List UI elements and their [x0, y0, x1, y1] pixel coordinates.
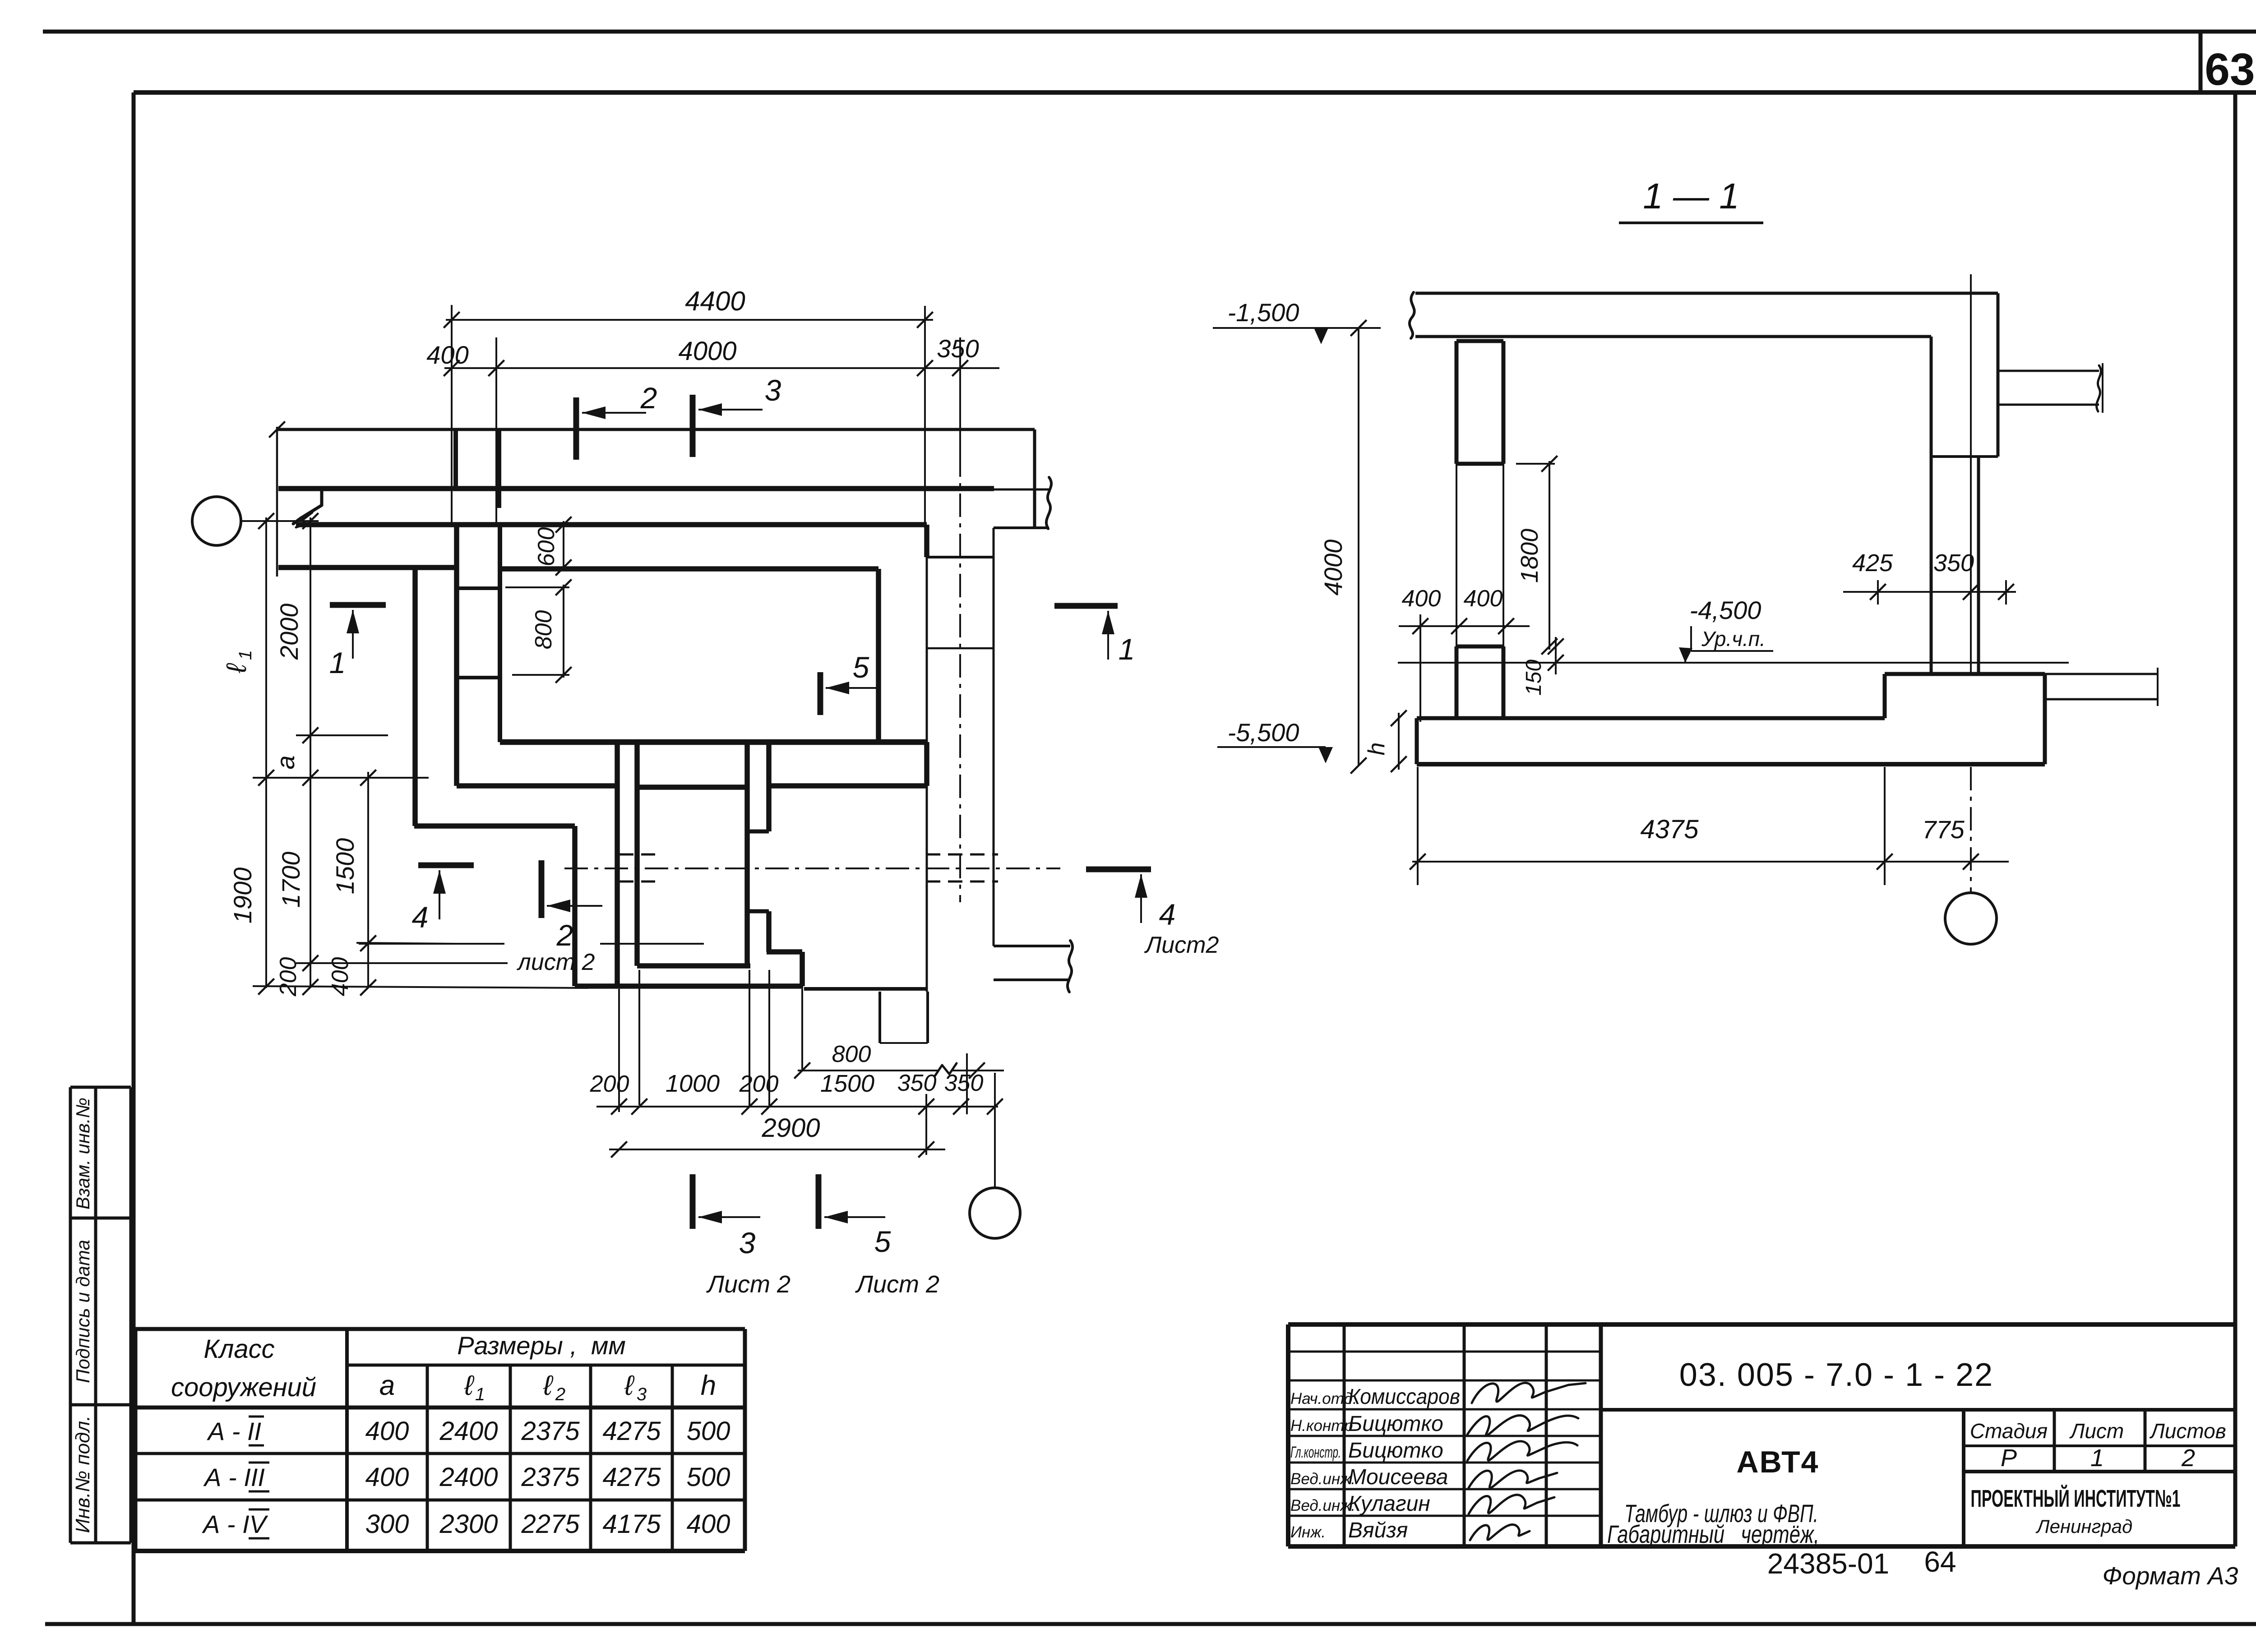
svg-text:400: 400 — [365, 1417, 409, 1446]
svg-text:400: 400 — [365, 1463, 409, 1492]
svg-text:Моисеева: Моисеева — [1348, 1465, 1448, 1489]
svg-text:425: 425 — [1852, 549, 1893, 577]
svg-text:Вед.инж.: Вед.инж. — [1290, 1497, 1355, 1514]
svg-text:350: 350 — [1933, 549, 1974, 577]
svg-text:2400: 2400 — [439, 1417, 498, 1446]
svg-text:Бицютко: Бицютко — [1348, 1439, 1443, 1463]
svg-text:2: 2 — [555, 1384, 565, 1404]
svg-text:1: 1 — [236, 650, 255, 660]
svg-text:5: 5 — [874, 1225, 891, 1258]
svg-text:Лист: Лист — [2069, 1419, 2124, 1443]
svg-text:Вед.инж.: Вед.инж. — [1290, 1470, 1355, 1488]
svg-text:Стадия: Стадия — [1970, 1419, 2048, 1443]
svg-text:200: 200 — [739, 1071, 779, 1097]
svg-text:1500: 1500 — [820, 1070, 874, 1097]
svg-text:600: 600 — [533, 527, 559, 567]
svg-text:300: 300 — [365, 1509, 409, 1539]
svg-text:h: h — [1364, 743, 1390, 756]
svg-text:4000: 4000 — [678, 337, 736, 366]
svg-text:800: 800 — [832, 1041, 871, 1067]
svg-text:лист 2: лист 2 — [517, 949, 595, 975]
svg-text:ℓ: ℓ — [221, 663, 252, 674]
svg-text:4375: 4375 — [1640, 815, 1699, 844]
svg-text:Инв.№ подл.: Инв.№ подл. — [72, 1416, 94, 1533]
svg-text:2400: 2400 — [439, 1463, 498, 1492]
svg-text:Подпись и дата: Подпись и дата — [72, 1240, 93, 1383]
svg-text:Инж.: Инж. — [1290, 1523, 1326, 1541]
svg-text:1500: 1500 — [331, 838, 359, 895]
svg-text:64: 64 — [1924, 1546, 1956, 1578]
svg-text:3: 3 — [765, 374, 781, 407]
svg-text:2375: 2375 — [521, 1463, 580, 1492]
svg-text:Лист 2: Лист 2 — [855, 1271, 939, 1298]
svg-text:Габаритный чертёж,: Габаритный чертёж, — [1607, 1520, 1819, 1548]
svg-text:800: 800 — [531, 610, 557, 650]
svg-text:Комиссаров: Комиссаров — [1348, 1385, 1460, 1409]
svg-text:2275: 2275 — [521, 1509, 580, 1539]
svg-text:1800: 1800 — [1516, 529, 1543, 583]
svg-text:А - IV: А - IV — [202, 1510, 268, 1538]
svg-text:Формат А3: Формат А3 — [2103, 1562, 2238, 1590]
svg-text:Листов: Листов — [2149, 1419, 2226, 1443]
svg-text:-5,500: -5,500 — [1228, 718, 1299, 747]
svg-text:Кулагин: Кулагин — [1348, 1492, 1430, 1516]
svg-text:350: 350 — [944, 1070, 984, 1096]
svg-text:63: 63 — [2205, 44, 2255, 95]
svg-text:3: 3 — [739, 1226, 756, 1260]
svg-text:200: 200 — [275, 957, 301, 997]
svg-text:5: 5 — [853, 651, 869, 684]
svg-text:4275: 4275 — [602, 1417, 661, 1446]
svg-text:350: 350 — [937, 334, 979, 363]
svg-text:ℓ: ℓ — [464, 1370, 475, 1401]
svg-text:Р: Р — [2001, 1444, 2017, 1472]
svg-text:2300: 2300 — [439, 1509, 498, 1539]
svg-text:ПРОЕКТНЫЙ ИНСТИТУТ№1: ПРОЕКТНЫЙ ИНСТИТУТ№1 — [1971, 1485, 2181, 1512]
svg-text:1: 1 — [2090, 1444, 2104, 1472]
svg-text:1: 1 — [329, 646, 346, 679]
svg-text:3: 3 — [637, 1384, 647, 1404]
svg-text:ℓ: ℓ — [543, 1370, 554, 1401]
svg-text:400: 400 — [426, 341, 468, 369]
svg-text:1 — 1: 1 — 1 — [1643, 176, 1739, 216]
svg-text:775: 775 — [1922, 815, 1965, 844]
svg-text:2: 2 — [640, 381, 657, 415]
svg-text:200: 200 — [590, 1071, 629, 1097]
svg-text:24385-01: 24385-01 — [1767, 1547, 1889, 1580]
svg-text:Вяйзя: Вяйзя — [1348, 1518, 1408, 1542]
svg-text:Размеры , мм: Размеры , мм — [457, 1331, 626, 1360]
svg-text:АВТ4: АВТ4 — [1737, 1445, 1819, 1479]
svg-text:2000: 2000 — [275, 604, 303, 660]
svg-text:2: 2 — [556, 918, 573, 952]
svg-text:500: 500 — [687, 1463, 730, 1492]
svg-text:1700: 1700 — [277, 852, 305, 908]
svg-text:4: 4 — [1159, 898, 1176, 931]
svg-text:Гл.констр.: Гл.констр. — [1290, 1444, 1341, 1461]
svg-text:a: a — [271, 755, 300, 769]
svg-text:А - II: А - II — [207, 1417, 261, 1445]
svg-text:1: 1 — [475, 1384, 485, 1404]
svg-text:400: 400 — [687, 1509, 730, 1539]
svg-text:А - III: А - III — [203, 1463, 265, 1491]
svg-text:Класс: Класс — [203, 1334, 274, 1364]
svg-text:Бицютко: Бицютко — [1348, 1412, 1443, 1436]
svg-text:03. 005 - 7.0 - 1 - 22: 03. 005 - 7.0 - 1 - 22 — [1679, 1357, 1993, 1393]
svg-text:Ленинград: Ленинград — [2035, 1516, 2132, 1537]
svg-text:1: 1 — [1119, 632, 1135, 666]
svg-text:Нач.отд.: Нач.отд. — [1290, 1390, 1357, 1407]
svg-text:400: 400 — [327, 957, 353, 997]
svg-text:сооружений: сооружений — [171, 1373, 316, 1402]
svg-text:4: 4 — [412, 900, 429, 934]
svg-text:h: h — [701, 1370, 716, 1401]
svg-text:1000: 1000 — [666, 1070, 720, 1097]
svg-text:150: 150 — [1522, 660, 1546, 696]
svg-text:Лист2: Лист2 — [1144, 932, 1219, 958]
svg-text:400: 400 — [1402, 586, 1441, 612]
svg-text:Н.контр.: Н.контр. — [1290, 1417, 1357, 1435]
svg-text:Лист 2: Лист 2 — [706, 1271, 791, 1298]
svg-text:2900: 2900 — [761, 1113, 820, 1143]
svg-text:400: 400 — [1464, 586, 1503, 612]
svg-text:2375: 2375 — [521, 1417, 580, 1446]
svg-text:4400: 4400 — [685, 286, 745, 316]
svg-text:Взам. инв.№: Взам. инв.№ — [72, 1098, 93, 1209]
svg-text:4175: 4175 — [602, 1509, 661, 1539]
svg-text:2: 2 — [2181, 1444, 2195, 1472]
svg-text:1900: 1900 — [228, 868, 257, 924]
svg-text:350: 350 — [897, 1070, 937, 1096]
svg-text:500: 500 — [687, 1417, 730, 1446]
svg-text:Ур.ч.п.: Ур.ч.п. — [1701, 627, 1766, 651]
svg-text:-4,500: -4,500 — [1690, 596, 1761, 624]
svg-text:4275: 4275 — [602, 1463, 661, 1492]
svg-text:a: a — [379, 1370, 395, 1401]
svg-text:-1,500: -1,500 — [1228, 298, 1299, 327]
svg-text:ℓ: ℓ — [624, 1370, 635, 1401]
svg-text:4000: 4000 — [1319, 540, 1347, 596]
